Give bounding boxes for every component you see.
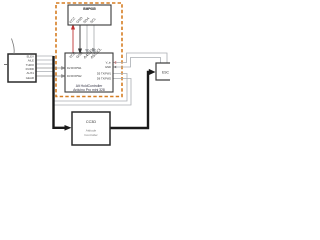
wire receiver RUDD to bundle (36, 71, 54, 73)
wire receiver AUX1 to arduino RX1 (36, 67, 65, 70)
svg-text:AUX1: AUX1 (26, 71, 34, 75)
svg-text:ESC: ESC (162, 71, 170, 75)
ESC box (156, 63, 180, 80)
wire receiver ELEV to bundle (36, 55, 54, 57)
bundle wire receiver channels to CC3D (thick) (54, 56, 72, 131)
svg-text:V_in: V_in (106, 61, 112, 65)
wire CC3D to ESC (thick) (110, 69, 156, 128)
svg-text:D3 RX/PW2: D3 RX/PW2 (67, 74, 82, 78)
svg-text:D5 TX/PW1: D5 TX/PW1 (97, 72, 112, 76)
wire receiver AILE to bundle (36, 59, 54, 61)
arrow GND into arduino (dark) (113, 66, 116, 68)
wire GND sensor-arduino (black) (79, 25, 82, 53)
svg-text:Arduino Pro mini 328: Arduino Pro mini 328 (73, 88, 105, 92)
wire receiver GEAR to arduino RX2 (36, 75, 65, 78)
arrow V_in into arduino (red) (113, 61, 116, 63)
wire arduino GND to ESC (power loop) (113, 58, 161, 68)
dashed enclosure (alt-hold controller module) (56, 3, 122, 97)
CC3D flight controller box (72, 112, 110, 145)
wire receiver THRO to bundle (36, 63, 54, 65)
svg-text:CC3D: CC3D (86, 120, 97, 124)
sensor U1 BMP085 box (68, 5, 111, 25)
receiver antenna (12, 39, 15, 55)
svg-text:GND: GND (105, 65, 111, 69)
svg-text:GEAR: GEAR (26, 76, 34, 80)
receiver bind pin (4, 64, 8, 66)
wire arduino D5 PWM out to bundle (54, 74, 127, 102)
svg-text:D6 TX/PW2: D6 TX/PW2 (97, 77, 112, 81)
svg-text:Attitude: Attitude (86, 129, 97, 133)
svg-text:D2 RX/PW1: D2 RX/PW1 (67, 66, 82, 70)
svg-text:Controller: Controller (84, 133, 97, 137)
wire SCL sensor-arduino (93, 25, 96, 53)
wire SDA sensor-arduino (86, 25, 89, 53)
receiver RX box (8, 54, 36, 82)
arduino U2 box (65, 53, 113, 92)
wire arduino D6 PWM out to bundle (54, 79, 131, 106)
wire arduino V_in to ESC (power loop) (113, 53, 167, 63)
wire VCC sensor-arduino (red) (72, 25, 75, 53)
svg-text:BMP085: BMP085 (83, 7, 96, 11)
